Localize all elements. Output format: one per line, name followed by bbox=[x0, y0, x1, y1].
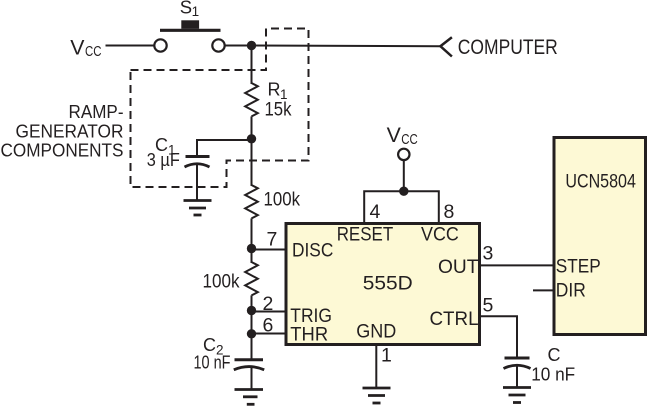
wire pin 6 stub (THR) bbox=[252, 333, 288, 335]
ground (555 GND) bbox=[363, 388, 391, 403]
svg-text:THR: THR bbox=[290, 324, 328, 346]
node F (pins 4/8 junction) bbox=[399, 187, 408, 196]
wire node A down to R1 bbox=[251, 46, 253, 85]
svg-text:V: V bbox=[387, 123, 402, 147]
node D (pin 2 junction) bbox=[247, 306, 256, 315]
svg-text:10 nF: 10 nF bbox=[531, 364, 575, 385]
svg-text:4: 4 bbox=[370, 201, 381, 223]
wire pin 5 stub (CTRL) to capacitor C bbox=[479, 316, 517, 358]
node C (pin 7 junction) bbox=[247, 244, 256, 253]
power net VCC (switch supply) bbox=[70, 35, 101, 60]
wire node B to upper 100k bbox=[251, 140, 253, 186]
resistor 100k (lower) bbox=[245, 262, 258, 295]
svg-text:RESET: RESET bbox=[337, 223, 394, 245]
svg-text:DIR: DIR bbox=[556, 280, 586, 302]
svg-text:COMPUTER: COMPUTER bbox=[458, 36, 558, 59]
svg-text:3: 3 bbox=[483, 243, 494, 265]
ground (C1) bbox=[184, 201, 212, 216]
svg-text:GND: GND bbox=[356, 321, 396, 343]
svg-text:6: 6 bbox=[263, 315, 274, 337]
svg-text:2: 2 bbox=[263, 293, 274, 315]
wire lower 100k to node D bbox=[251, 295, 253, 311]
ground (C) bbox=[503, 388, 531, 403]
wire node D to node E bbox=[251, 312, 253, 335]
svg-text:1: 1 bbox=[192, 4, 200, 19]
svg-text:C: C bbox=[548, 345, 561, 365]
capacitor C2 bbox=[234, 360, 264, 370]
IC U2 UCN5804 bbox=[554, 138, 646, 335]
svg-text:3 µF: 3 µF bbox=[147, 150, 180, 170]
wire C1 to ground bbox=[196, 164, 198, 200]
wire pin 3 OUT to STEP bbox=[479, 264, 553, 266]
svg-text:15k: 15k bbox=[265, 100, 292, 121]
svg-text:V: V bbox=[70, 35, 85, 59]
switch S1 (pushbutton) bbox=[154, 20, 224, 51]
capacitor C1 bbox=[185, 157, 210, 168]
svg-text:CC: CC bbox=[85, 43, 102, 60]
svg-text:CC: CC bbox=[401, 131, 418, 148]
node A (S1 / R1 / COMPUTER junction) bbox=[247, 41, 256, 50]
node E (pin 6 junction) bbox=[247, 329, 256, 338]
terminal circle VCC bbox=[398, 149, 409, 160]
node B (R1 / C1 / 100k junction) bbox=[247, 134, 256, 143]
label C2 bbox=[203, 335, 224, 358]
wire node B to capacitor C1 bbox=[197, 140, 252, 157]
svg-text:R: R bbox=[268, 80, 281, 100]
resistor R1 bbox=[245, 83, 258, 116]
svg-text:100k: 100k bbox=[264, 190, 301, 211]
IC U1 555D bbox=[286, 224, 480, 345]
svg-text:UCN5804: UCN5804 bbox=[565, 171, 636, 193]
svg-text:RAMP-: RAMP- bbox=[69, 102, 124, 122]
wire pin 1 (GND) bbox=[375, 345, 377, 388]
svg-text:8: 8 bbox=[444, 201, 455, 223]
wire node E to capacitor C2 bbox=[251, 334, 253, 360]
svg-text:STEP: STEP bbox=[556, 256, 601, 278]
svg-text:DISC: DISC bbox=[292, 240, 333, 262]
wire node A to COMPUTER connector bbox=[252, 45, 441, 48]
wire S1 right terminal to node A bbox=[225, 45, 252, 47]
svg-text:7: 7 bbox=[267, 229, 278, 251]
label R1 bbox=[268, 80, 288, 102]
connector chevron to COMPUTER bbox=[440, 37, 452, 56]
wire DIR stub bbox=[533, 289, 553, 291]
wire to pin 4 bbox=[364, 191, 404, 223]
wire node C to lower 100k bbox=[251, 249, 253, 263]
power net VCC (555 supply) bbox=[387, 123, 418, 148]
wire pin 7 stub (DISC) bbox=[252, 249, 288, 251]
label RAMP-GENERATOR COMPONENTS bbox=[1, 102, 124, 160]
wire VCC to S1 left terminal bbox=[106, 45, 155, 47]
svg-text:5: 5 bbox=[483, 295, 494, 317]
dashed outline ramp-generator components bbox=[131, 29, 309, 188]
svg-text:COMPONENTS: COMPONENTS bbox=[1, 140, 124, 160]
label C1 bbox=[155, 135, 176, 158]
svg-text:CTRL: CTRL bbox=[430, 308, 479, 330]
wire to pin 8 bbox=[404, 191, 439, 223]
svg-text:VCC: VCC bbox=[421, 223, 459, 245]
svg-text:100k: 100k bbox=[203, 272, 240, 293]
svg-text:1: 1 bbox=[381, 345, 392, 367]
ground (C2) bbox=[235, 390, 264, 405]
svg-text:OUT: OUT bbox=[438, 256, 479, 278]
wire upper 100k to node C bbox=[251, 218, 253, 250]
svg-text:S: S bbox=[180, 0, 192, 18]
svg-text:GENERATOR: GENERATOR bbox=[16, 121, 124, 141]
svg-text:555D: 555D bbox=[363, 273, 413, 295]
wire C to ground bbox=[516, 366, 518, 388]
capacitor C (CTRL) bbox=[504, 358, 531, 369]
svg-text:10 nF: 10 nF bbox=[194, 353, 231, 373]
wire R1 to node B bbox=[251, 116, 253, 140]
wire VCC terminal to node F bbox=[403, 160, 405, 191]
label S1 bbox=[180, 0, 199, 19]
resistor 100k (upper) bbox=[245, 185, 258, 218]
wire pin 2 stub (TRIG) bbox=[252, 311, 288, 313]
wire C2 to ground bbox=[251, 367, 253, 390]
